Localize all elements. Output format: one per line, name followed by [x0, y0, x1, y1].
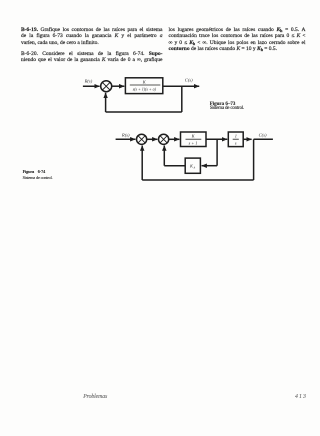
caption Figura 6-73 line 2 [210, 106, 244, 111]
node C(s) label (fig 6-74) [259, 132, 267, 137]
svg-text:h: h [194, 166, 196, 170]
wire inner feedback takeoff vertical (fig 6-74) [216, 139, 218, 165]
left column paragraph B-6-19 line 1 [21, 27, 163, 33]
wire summing junction 1 to summing junction 2 (fig 6-74) [147, 138, 158, 140]
value label K numerator (fig 6-73) [142, 79, 147, 84]
right column line 2 [169, 33, 306, 39]
svg-text:C(s): C(s) [185, 77, 193, 82]
svg-text:C(s): C(s) [259, 132, 267, 137]
wire outer feedback up into summing junction 1 (fig 6-74) [141, 146, 143, 181]
left column paragraph B-6-20 line 2 [21, 57, 163, 63]
wire block Kh output left (fig 6-74) [164, 165, 185, 167]
summing junction 2 (fig 6-74) [159, 134, 169, 144]
node R(s) label (fig 6-73) [84, 78, 93, 83]
wire inner feedback up into summing junction 2 (fig 6-74) [163, 146, 165, 166]
wire block to output C(s) (fig 6-73) [163, 85, 199, 87]
right column line 3 [169, 40, 306, 46]
value label Kh (fig 6-74) [189, 164, 196, 170]
svg-text:R(s): R(s) [84, 78, 93, 83]
value label s(s+1)(s+a) denominator (fig 6-73) [133, 87, 157, 92]
svg-text:s: s [235, 141, 237, 146]
node R(s) label (fig 6-74) [121, 133, 130, 138]
wire block K/(s+1) to block 1/s (fig 6-74) [206, 138, 227, 140]
svg-text:s + 1: s + 1 [189, 140, 198, 145]
left column paragraph B-6-20 line 1 [21, 51, 163, 57]
block 1/s (fig 6-74) [228, 132, 243, 147]
wire block 1/s to output takeoff (fig 6-74) [243, 138, 251, 140]
wire input to summing junction 1 (fig 6-74) [116, 138, 136, 140]
wire output segment to C(s) (fig 6-74) [254, 138, 273, 140]
right column line 1 [169, 27, 306, 33]
value label s denominator (fig 6-74) [235, 141, 237, 146]
block K/(s+1) (fig 6-74) [181, 132, 207, 147]
svg-text:s(s + 1)(s + a): s(s + 1)(s + a) [133, 87, 157, 92]
summing junction (fig 6-73) [101, 81, 112, 92]
footer page number 413 [295, 394, 307, 401]
summing junction 1 (fig 6-74) [137, 134, 147, 144]
wire feedback takeoff vertical (fig 6-73) [181, 86, 183, 112]
wire summing junction 2 to block K/(s+1) (fig 6-74) [169, 138, 180, 140]
wire outer feedback bottom horizontal (fig 6-74) [142, 179, 253, 181]
svg-text:K: K [142, 79, 147, 84]
svg-text:K: K [191, 133, 196, 138]
wire input to summing junction (fig 6-73) [83, 85, 100, 87]
node C(s) label (fig 6-73) [185, 77, 193, 82]
caption Figura 6-74 line 1 [23, 169, 46, 174]
wire summing junction to block (fig 6-73) [112, 85, 125, 87]
value label 1 numerator (fig 6-74) [235, 134, 237, 139]
block Kh (fig 6-74) [185, 158, 200, 173]
right column line 4 [169, 46, 278, 52]
svg-text:1: 1 [235, 134, 237, 139]
wire feedback bottom horizontal (fig 6-73) [106, 111, 182, 113]
wire feedback return up into summing junction (fig 6-73) [105, 93, 107, 112]
caption Figura 6-74 line 2 [23, 175, 53, 180]
left column paragraph B-6-19 line 3 [21, 40, 99, 46]
block K/(s(s+1)(s+a)) (fig 6-73) [125, 78, 162, 94]
wire outer feedback takeoff vertical (fig 6-74) [253, 139, 255, 180]
footer running head Problemas [83, 394, 107, 401]
svg-text:R(s): R(s) [121, 133, 130, 138]
value label s+1 denominator (fig 6-74) [189, 140, 198, 145]
left column paragraph B-6-19 line 2 [21, 33, 163, 39]
value label K numerator (fig 6-74) [191, 133, 196, 138]
caption Figura 6-73 line 1 [210, 102, 236, 107]
wire inner feedback into block Kh (fig 6-74) [202, 165, 218, 167]
